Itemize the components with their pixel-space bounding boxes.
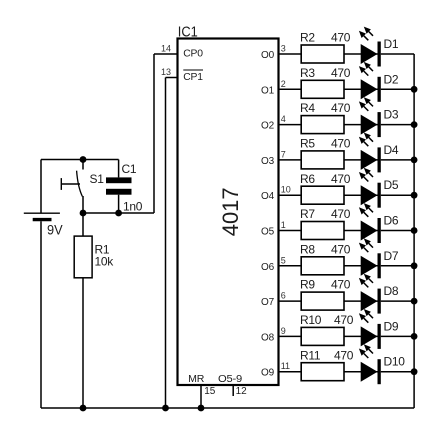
node bus junction row D6 (411, 227, 418, 234)
node rail MR (198, 405, 205, 412)
svg-text:R9: R9 (300, 278, 315, 292)
wire R4 to D3 (344, 124, 378, 126)
svg-text:7: 7 (281, 149, 286, 159)
wire D5 cathode to bus (381, 194, 414, 196)
pin number 6 (281, 291, 286, 301)
pin number 9 (281, 326, 286, 336)
wire O3 to R5 (279, 159, 302, 161)
wire D10 cathode to bus (381, 371, 414, 373)
pin number 1 (281, 220, 286, 230)
node bus junction row D7 (411, 262, 418, 269)
svg-text:D1: D1 (384, 37, 399, 51)
svg-text:11: 11 (281, 361, 290, 371)
svg-text:D2: D2 (384, 72, 399, 86)
svg-text:O6: O6 (261, 262, 275, 273)
svg-text:D9: D9 (384, 319, 399, 333)
svg-text:C1: C1 (122, 162, 137, 176)
LED D5 (359, 168, 399, 208)
svg-text:6: 6 (281, 291, 286, 301)
node C1 bottom junction (115, 210, 122, 217)
svg-text:CP0: CP0 (183, 49, 203, 60)
pin number 2 (281, 79, 286, 89)
wire R2 to D1 (344, 53, 378, 55)
svg-text:D8: D8 (384, 284, 399, 298)
wire CP0 net riser (154, 54, 178, 213)
svg-text:470: 470 (334, 348, 354, 362)
node bus junction row D4 (411, 157, 418, 164)
wire cathode bus vertical (413, 54, 415, 408)
wire O6 to R8 (279, 265, 302, 267)
pin O5-9 12 stub (233, 385, 247, 397)
svg-text:R11: R11 (300, 348, 321, 362)
svg-text:9: 9 (281, 326, 286, 336)
svg-text:R10: R10 (300, 313, 322, 327)
node bus junction row D2 (411, 86, 418, 93)
svg-text:O9: O9 (261, 368, 275, 379)
wire O2 to R4 (279, 124, 302, 126)
wire top rail battery to C1 (41, 159, 119, 161)
svg-text:1n0: 1n0 (123, 200, 143, 214)
svg-text:O4: O4 (261, 191, 275, 202)
pin MR 15 stub (201, 385, 216, 408)
pin label O2 (261, 121, 275, 132)
svg-text:4017: 4017 (218, 187, 243, 236)
wire D1 cathode to bus (381, 53, 414, 55)
pin label O4 (261, 191, 275, 202)
svg-text:S1: S1 (90, 172, 105, 186)
wire O0 to R2 (279, 53, 302, 55)
pin number 14 (161, 44, 171, 54)
wire O8 to R10 (279, 335, 302, 337)
node bus junction row D9 (411, 333, 418, 340)
switch S1 (61, 160, 104, 214)
wire O9 to R11 (279, 371, 302, 373)
wire ground rail bottom (41, 407, 414, 409)
svg-text:R3: R3 (300, 66, 315, 80)
pin number 5 (281, 255, 286, 265)
svg-text:470: 470 (331, 31, 351, 45)
pin label O0 (261, 50, 275, 61)
wire R6 to D5 (344, 194, 378, 196)
wire junction row to CP0 riser (83, 212, 154, 214)
svg-text:470: 470 (331, 242, 351, 256)
svg-text:O2: O2 (261, 121, 275, 132)
op IC1 4017 counter body (178, 23, 279, 385)
pin label O9 (261, 368, 275, 379)
LED D4 (359, 133, 399, 173)
svg-text:10: 10 (281, 185, 291, 195)
resistor R10 470 (300, 313, 354, 345)
svg-text:D4: D4 (384, 143, 399, 157)
node rail CP1 (162, 405, 169, 412)
resistor R3 470 (300, 66, 351, 98)
node bus junction row D5 (411, 192, 418, 199)
resistor R6 470 (300, 172, 351, 204)
svg-text:O3: O3 (261, 156, 275, 167)
wire D4 cathode to bus (381, 159, 414, 161)
svg-text:15: 15 (204, 386, 216, 397)
LED D1 (359, 27, 399, 67)
node switch top junction (80, 156, 87, 163)
wire D8 cathode to bus (381, 300, 414, 302)
wire D7 cathode to bus (381, 265, 414, 267)
svg-text:5: 5 (281, 255, 286, 265)
svg-text:D6: D6 (384, 214, 399, 228)
resistor R1 10k (74, 213, 114, 408)
svg-text:470: 470 (331, 66, 351, 80)
wire D2 cathode to bus (381, 88, 414, 90)
LED D2 (359, 62, 399, 102)
svg-text:O0: O0 (261, 50, 275, 61)
svg-text:O5-9: O5-9 (218, 374, 243, 385)
svg-text:470: 470 (331, 101, 351, 115)
svg-text:O5: O5 (261, 227, 275, 238)
svg-text:D3: D3 (384, 108, 399, 122)
LED D3 (359, 97, 399, 137)
svg-text:D10: D10 (384, 355, 406, 369)
svg-text:R6: R6 (300, 172, 315, 186)
svg-text:9V: 9V (47, 222, 63, 238)
pin number 4 (281, 114, 286, 124)
svg-text:14: 14 (161, 44, 171, 54)
node bus junction row D8 (411, 298, 418, 305)
LED D8 (359, 274, 399, 314)
pin number 11 (281, 361, 290, 371)
svg-text:3: 3 (281, 44, 286, 54)
svg-text:R8: R8 (300, 242, 315, 256)
resistor R2 470 (300, 31, 351, 63)
resistor R4 470 (300, 101, 351, 133)
pin number 13 (161, 67, 171, 77)
wire R3 to D2 (344, 88, 378, 90)
wire R9 to D8 (344, 300, 378, 302)
svg-text:O7: O7 (261, 297, 275, 308)
wire R5 to D4 (344, 159, 378, 161)
resistor R5 470 (300, 137, 351, 169)
wire D3 cathode to bus (381, 124, 414, 126)
pin label O6 (261, 262, 275, 273)
wire R7 to D6 (344, 230, 378, 232)
capacitor C1 1n0 (106, 160, 143, 214)
LED D10 (359, 344, 405, 384)
svg-text:4: 4 (281, 114, 286, 124)
pin label O1 (261, 85, 275, 96)
svg-text:IC1: IC1 (178, 23, 198, 40)
pin number 7 (281, 149, 286, 159)
svg-text:D5: D5 (384, 178, 399, 192)
svg-text:13: 13 (161, 67, 171, 77)
svg-text:10k: 10k (95, 255, 115, 269)
wire O7 to R9 (279, 300, 302, 302)
svg-text:CP1: CP1 (183, 72, 203, 83)
svg-text:2: 2 (281, 79, 286, 89)
LED D9 (359, 309, 399, 349)
pin label O3 (261, 156, 275, 167)
pin number 3 (281, 44, 286, 54)
svg-text:1: 1 (281, 220, 286, 230)
LED D6 (359, 203, 399, 243)
wire CP1 net to ground rail (166, 78, 178, 409)
svg-text:R2: R2 (300, 31, 315, 45)
svg-text:R4: R4 (300, 101, 315, 115)
node bus junction row D3 (411, 121, 418, 128)
svg-text:R5: R5 (300, 137, 315, 151)
svg-text:470: 470 (331, 137, 351, 151)
LED D7 (359, 238, 399, 278)
resistor R8 470 (300, 242, 351, 274)
wire D6 cathode to bus (381, 230, 414, 232)
node rail R1 (80, 405, 87, 412)
svg-text:470: 470 (331, 278, 351, 292)
svg-text:O8: O8 (261, 332, 275, 343)
svg-text:O1: O1 (261, 85, 275, 96)
svg-text:470: 470 (334, 313, 354, 327)
wire R11 to D10 (344, 371, 378, 373)
pin label O7 (261, 297, 275, 308)
svg-text:470: 470 (331, 207, 351, 221)
node switch bottom junction (80, 210, 87, 217)
wire O1 to R3 (279, 88, 302, 90)
wire O4 to R6 (279, 194, 302, 196)
wire D9 cathode to bus (381, 335, 414, 337)
wire R10 to D9 (344, 335, 378, 337)
svg-text:12: 12 (236, 386, 248, 397)
svg-text:470: 470 (331, 172, 351, 186)
wire O5 to R7 (279, 230, 302, 232)
wire R8 to D7 (344, 265, 378, 267)
pin label O8 (261, 332, 275, 343)
resistor R7 470 (300, 207, 351, 239)
resistor R9 470 (300, 278, 351, 310)
svg-text:MR: MR (188, 374, 204, 385)
pin number 10 (281, 185, 291, 195)
node bus junction row D10 (411, 368, 418, 375)
resistor R11 470 (300, 348, 354, 380)
svg-text:D7: D7 (384, 249, 399, 263)
svg-text:R7: R7 (300, 207, 315, 221)
pin label O5 (261, 227, 275, 238)
battery BT1 9V (24, 160, 63, 409)
